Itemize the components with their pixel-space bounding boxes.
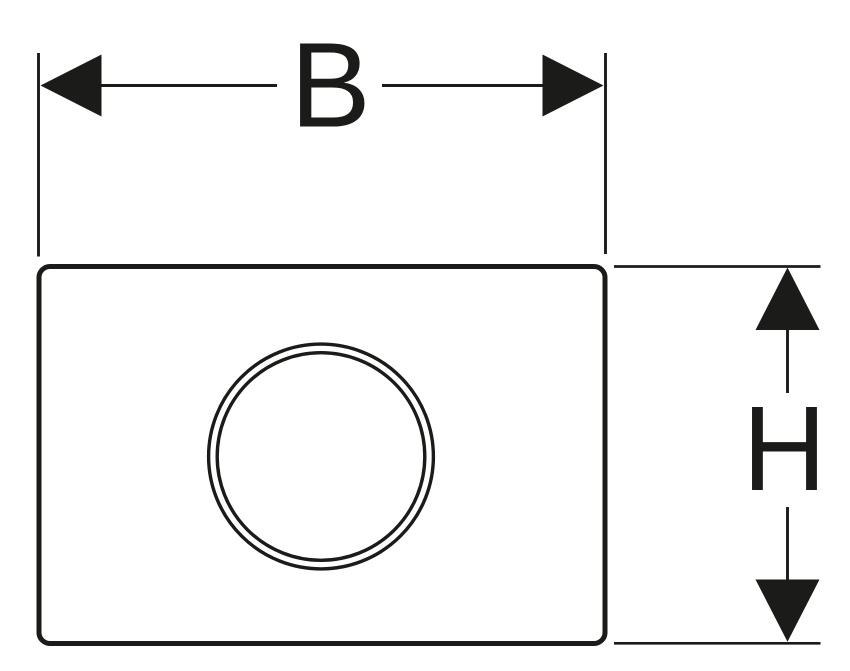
dimension B: right arrowhead <box>543 55 604 117</box>
flush plate outline <box>39 267 605 644</box>
dimension B: left extension line <box>37 53 40 257</box>
dimension B: left dimension line segment <box>99 84 277 87</box>
dimension H: bottom tick line <box>614 642 821 645</box>
button ring outer circle <box>209 344 434 569</box>
dimension H: lower dimension line segment <box>786 507 789 581</box>
dimension B: right extension line <box>604 53 607 254</box>
svg-text:H: H <box>743 382 827 517</box>
dimension B: right dimension line segment <box>382 84 545 87</box>
button ring inner circle <box>217 353 425 561</box>
svg-text:B: B <box>290 17 371 153</box>
dimension H: top tick line <box>614 265 821 268</box>
dimension B: left arrowhead <box>41 55 102 117</box>
dimension H: upper dimension line segment <box>786 329 789 393</box>
dimension H: up arrowhead <box>756 268 820 331</box>
dimension H: down arrowhead <box>756 580 820 642</box>
